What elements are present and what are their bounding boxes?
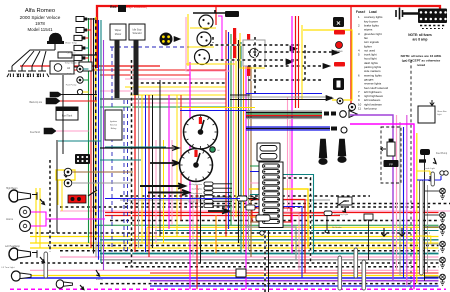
wire pink 1: [60, 256, 439, 258]
dashed box: aftermarket fuel pump: [381, 127, 401, 183]
svg-text:left highbeam: left highbeam: [189, 183, 202, 186]
lamp: right tail light: [440, 188, 446, 199]
svg-text:Relay: Relay: [111, 128, 117, 130]
wire black v x160: [159, 80, 161, 237]
svg-text:High Beam: High Beam: [6, 188, 17, 190]
wire bundle #111111: [238, 40, 240, 243]
svg-text:fuel pump: fuel pump: [364, 107, 377, 111]
switch: brake light switch: [256, 215, 270, 221]
svg-text:LF Turn Light: LF Turn Light: [2, 266, 15, 269]
capsule connector bottom 1: [338, 256, 342, 290]
svg-text:Trunk Light: Trunk Light: [424, 167, 435, 170]
connector arrow2: [286, 59, 293, 65]
wire loop red: [249, 200, 305, 274]
svg-text:dash lights: dash lights: [192, 187, 203, 190]
lamp small: [337, 98, 343, 104]
box: idle solenoid: [129, 24, 145, 40]
wire black v x200: [200, 195, 202, 263]
wire dash 2: [60, 250, 439, 252]
connector: high beam ind: [204, 200, 213, 204]
wire vert #1515e8 x98.5: [98, 20, 100, 260]
svg-text:(ga) EXCEPT as otherwise: (ga) EXCEPT as otherwise: [402, 59, 441, 63]
connector: rear harness joint: [364, 214, 373, 220]
wire loop teal: [283, 175, 314, 254]
sender: Water Temp: [74, 35, 82, 40]
wire yellow 1: [30, 242, 439, 244]
motor: blower: [195, 50, 210, 65]
wire black u1: [100, 98, 226, 100]
fuse 8: [263, 203, 280, 207]
switch courtesy: [337, 201, 349, 206]
connector: heater: [246, 205, 255, 210]
wire teal stub left: [100, 159, 141, 161]
lamp: license lights: [440, 171, 444, 175]
fuse 9: [263, 208, 280, 212]
svg-text:noted: noted: [417, 63, 426, 67]
wire red v x197: [196, 185, 198, 289]
wire red inner rect: [252, 208, 291, 222]
wire dash tv0: [212, 37, 214, 43]
component: fuel pump (trunk): [420, 149, 430, 155]
fuse 5: [263, 186, 280, 190]
wire bundle #0e8080: [240, 42, 242, 254]
wire yellow u1: [125, 86, 226, 88]
label: alt: [334, 62, 345, 67]
ignition coil: [58, 52, 72, 58]
switch: handbrake: [88, 190, 97, 196]
wire dash u1: [130, 82, 226, 84]
fuse 7: [263, 197, 280, 201]
wire green u1: [100, 106, 226, 108]
wire bundle #996633: [250, 50, 252, 257]
wire red c1: [105, 212, 439, 214]
switch: ignition: [340, 111, 347, 118]
wire pink u3: [130, 102, 226, 104]
wire yellow lv2: [39, 188, 41, 248]
wire vert #9a9a9a x96: [95, 20, 97, 257]
wire loop yellow: [249, 189, 308, 248]
horn 2: [20, 221, 31, 232]
switch: glovebox: [260, 231, 264, 235]
distributor: [49, 33, 62, 41]
wire red v x295: [295, 16, 297, 108]
connector: round 4-pin: [160, 33, 173, 46]
svg-text:Service: Service: [110, 124, 118, 127]
sender: Fuel Pump: [77, 77, 83, 83]
svg-text:Fuel Sndr: Fuel Sndr: [30, 131, 40, 134]
lamp: side marker: [56, 280, 64, 288]
wire yellow loop right: [303, 30, 352, 100]
motor: wiper: [199, 15, 213, 29]
wire black vertical x63: [62, 75, 64, 154]
sender: plug small: [77, 89, 82, 94]
wire dash tv2: [304, 45, 306, 80]
svg-text:Alfa Romeo: Alfa Romeo: [25, 8, 55, 14]
svg-text:×: ×: [336, 18, 341, 27]
ground: [428, 176, 431, 181]
svg-text:Horns: Horns: [6, 217, 14, 221]
wire bundle #9a9a9a: [248, 48, 250, 251]
box: seat belt buzzer: [338, 197, 352, 205]
svg-text:1978: 1978: [35, 21, 45, 26]
wire black v x152: [152, 95, 154, 248]
wire brown: [72, 171, 133, 173]
wire blue 2: [150, 285, 439, 287]
wire dash t5: [248, 79, 322, 81]
dashed boundary: dash area: [110, 46, 212, 48]
wire dash 3: [20, 262, 439, 264]
fuse 1: [263, 164, 280, 168]
wire blue 198: [105, 198, 240, 200]
wire vert #111111 x93.5: [93, 18, 95, 254]
wire coil to bundle: [72, 54, 97, 56]
fuse 10: [263, 214, 280, 218]
wire: red main feed: [97, 6, 440, 68]
wire dash c2: [60, 206, 430, 208]
sender: oil temp top: [76, 17, 84, 22]
fuse block: [259, 162, 283, 228]
lamp: left headlamp: [9, 248, 19, 260]
wire green c1: [95, 224, 439, 226]
wire bundle #159040: [230, 34, 232, 225]
svg-text:FP: FP: [389, 162, 393, 166]
wire yellow v x163: [163, 140, 165, 243]
wire yellow loop center-left: [146, 227, 148, 246]
wire red v x181: [180, 95, 182, 221]
alternator symbol in legend: [349, 104, 356, 111]
svg-text:Left Headlamp: Left Headlamp: [5, 245, 21, 248]
wire loop gray: [245, 227, 296, 260]
sensor: brake fluid 2: [64, 179, 72, 187]
wire red v x298: [298, 16, 300, 108]
box: glovebox light: [418, 106, 435, 123]
wire pink v x172: [171, 140, 173, 225]
wire yellow jog right: [417, 236, 431, 244]
wire loop black dash: [283, 178, 311, 263]
lamp: right side marker: [440, 274, 446, 285]
svg-text:Load: Load: [369, 10, 377, 14]
gauge: tachometer: [184, 115, 218, 149]
wire: red risers: [233, 28, 236, 58]
component: flasher: [236, 269, 246, 277]
sender: Oil Level: [74, 45, 82, 50]
sender: top2: [76, 28, 84, 33]
wire teal 1: [100, 253, 439, 255]
capsule connector bottom 1b: [354, 248, 358, 278]
wire yellow loop blower: [240, 33, 265, 68]
svg-text:Brakes: Brakes: [335, 50, 343, 53]
wire magenta motor: [218, 16, 222, 60]
horn 1: [20, 207, 31, 218]
starter: [79, 62, 92, 71]
motor: heater fan: [197, 32, 211, 46]
wire yellow lv1: [35, 188, 37, 243]
indicator: clock: [333, 17, 344, 27]
fuse 4: [263, 181, 280, 185]
svg-text:battery: battery: [96, 278, 104, 281]
wire blue right: [403, 127, 405, 278]
svg-text:Ignition: Ignition: [110, 120, 118, 123]
svg-text:right highbeam: right highbeam: [188, 192, 203, 195]
wire gray c1: [120, 199, 330, 201]
ground: [96, 270, 100, 276]
svg-text:fuel gauge: fuel gauge: [192, 206, 203, 208]
lamp: license light: [440, 257, 446, 268]
svg-text:No Smoke: No Smoke: [332, 227, 343, 229]
wire blue row 93: [246, 93, 322, 95]
svg-text:are 8 amp: are 8 amp: [413, 38, 428, 42]
wire magenta dashed bottom: [10, 288, 446, 290]
fuse 11: [263, 220, 280, 224]
wire pink u1: [125, 78, 226, 80]
cable: black 1: [115, 40, 120, 98]
wire yellow v x302: [301, 25, 303, 100]
wire gray right x427: [427, 185, 429, 273]
capsule connector bottom 2: [362, 260, 366, 290]
wire yellow v x177: [176, 95, 178, 237]
svg-text:Courtesy Light: Courtesy Light: [334, 213, 348, 216]
connector capsule right: [420, 180, 424, 275]
wire teal 147: [105, 146, 166, 148]
svg-text:2000 Spider Veloce: 2000 Spider Veloce: [20, 15, 61, 20]
wire blue 1: [20, 277, 439, 279]
wire blue dashed v3: [127, 100, 129, 252]
wire yellow v x142: [141, 95, 143, 243]
svg-text:Oil Press: Oil Press: [67, 73, 77, 76]
band: lighting harness: [246, 126, 330, 128]
wire dash vertical below fuses: [264, 230, 266, 292]
svg-text:Back-Up Lts: Back-Up Lts: [29, 101, 42, 104]
svg-text:11: 11: [358, 107, 361, 111]
wire red c2: [105, 215, 340, 217]
wire bundle #ff00ff: [245, 46, 247, 289]
sensor: temp: [325, 222, 329, 233]
wire vert #0e8080 x101: [100, 20, 102, 263]
ground: [433, 158, 436, 164]
wire pink 2: [30, 269, 439, 271]
indicator: fuel gauge: [333, 78, 344, 90]
wire gray v x138: [138, 95, 140, 248]
wire dash v1: [131, 60, 133, 267]
fuel tank: [56, 107, 78, 120]
lamp: LF turn/parking: [11, 271, 20, 281]
lamp: high beam: [9, 190, 19, 202]
spark plug 4: [37, 66, 49, 77]
wire purple 1: [150, 280, 439, 282]
wire dash t2: [210, 59, 298, 61]
wire yellow motor loops: [188, 14, 216, 66]
wire black arrow x100: [100, 146, 179, 151]
wire yellow right x417: [416, 133, 418, 284]
connector: fuel gauge: [204, 204, 213, 208]
wire bundle #1515e8: [228, 32, 230, 229]
fuse 3: [263, 175, 280, 179]
wire blue dashed v2: [123, 100, 125, 252]
lamp: right turn signal: [440, 241, 446, 252]
wire pink c1: [60, 210, 240, 212]
wire teal stub left mid: [58, 140, 101, 142]
wire gray brake: [72, 182, 132, 184]
capsule connector left-mid: [44, 252, 48, 278]
wire dash c4: [30, 232, 430, 234]
wire purple right: [350, 115, 393, 281]
wire yellow trunk loop: [417, 171, 430, 175]
connector: turn indicator: [204, 195, 213, 199]
wire gray right: [399, 122, 401, 276]
wire teal c2: [155, 230, 439, 232]
fuse 6: [263, 192, 280, 196]
connector: hazard flasher: [237, 196, 247, 201]
lamp: right brake light: [440, 212, 446, 223]
spark plug wires: [12, 50, 55, 66]
wire yellow motor row: [186, 63, 235, 65]
wire red v x135: [134, 70, 136, 252]
box: blower unit: [243, 40, 265, 66]
wire orange vertical x216: [215, 215, 217, 254]
wire yellow 2: [30, 247, 439, 249]
switch: turn signal stalk: [338, 139, 346, 156]
connector: left highbeam: [204, 182, 213, 186]
svg-text:Model 11541: Model 11541: [27, 27, 53, 32]
wire magenta v x169: [168, 95, 170, 229]
connector arrow: [290, 46, 297, 52]
svg-text:Idle Stop: Idle Stop: [132, 28, 142, 31]
wire dash c0: [120, 195, 370, 197]
switch: dimmer stalk: [319, 139, 327, 158]
sender: Temp Sender: [74, 55, 82, 60]
switch: door switches: [382, 228, 387, 236]
svg-text:Oil Level: Oil Level: [67, 53, 76, 55]
brake fluid reservoir: [68, 195, 86, 203]
wire black v below fuses: [268, 230, 270, 292]
svg-text:Water Temp: Water Temp: [65, 42, 77, 45]
svg-text:Fuel Pump: Fuel Pump: [66, 85, 77, 87]
svg-text:high beam ind: high beam ind: [188, 202, 203, 204]
wire blue above gauges: [180, 110, 250, 112]
svg-text:Door: Door: [382, 238, 387, 241]
fuse 2: [263, 170, 280, 174]
wire dash lv: [49, 160, 51, 252]
svg-text:Alt: Alt: [67, 66, 70, 70]
label: brakes: [334, 30, 345, 35]
wire gray 1: [100, 259, 439, 261]
wire dash t3: [248, 51, 332, 53]
wire vert #a040d8 x103.5: [103, 40, 105, 270]
connector: trunk light: [419, 159, 426, 162]
wire bundle #ff9000: [243, 44, 245, 248]
wire yellow c2: [147, 226, 439, 228]
svg-text:Glove Box: Glove Box: [437, 111, 448, 113]
cable arrow 0: [150, 160, 179, 165]
connector: barrel 2: [331, 127, 337, 131]
sensor: brake fluid 1: [64, 168, 72, 176]
wire yellow above gauges: [180, 107, 255, 109]
relay: fuse feed: [257, 143, 280, 161]
wire bundle #ffdf00: [235, 38, 237, 218]
wire yellow 3: [30, 275, 439, 277]
wire bundle #ff9dc8: [233, 58, 235, 221]
wire orchid right: [406, 115, 408, 286]
wire pink right: [396, 115, 398, 270]
wire magenta main vertical: [189, 62, 191, 289]
wire pink v x156: [155, 140, 157, 243]
wire vert #159040 x88.5: [88, 18, 90, 243]
wire pink c2: [324, 210, 450, 212]
svg-text:Red: Red: [110, 5, 116, 9]
connector: black top: [118, 5, 126, 12]
svg-text:Light: Light: [437, 113, 442, 116]
wire black lv: [56, 140, 58, 233]
wire red drop to legend: [350, 6, 352, 112]
wire pink v x290: [289, 120, 291, 211]
svg-text:Solenoid: Solenoid: [133, 33, 143, 35]
wire dash c1: [125, 203, 450, 205]
spark plug 2: [17, 66, 29, 77]
connector: dash lights: [204, 186, 213, 190]
spark plug 1: [7, 66, 19, 77]
lamp: courtesy light: [324, 211, 332, 216]
cable: black 2: [134, 40, 139, 95]
gauge: speedometer: [180, 149, 213, 182]
svg-text:Wiper: Wiper: [115, 29, 122, 32]
connector: right highbeam: [204, 191, 213, 195]
wire yellow pair drop: [57, 180, 59, 205]
svg-text:Temp Sender: Temp Sender: [64, 62, 77, 65]
wire black right x424: [424, 150, 426, 281]
box: intermittent wiper (yellow loop): [56, 170, 75, 180]
connector: barrel 1: [324, 112, 336, 116]
lamp: brake warning: [336, 42, 343, 49]
fusebox pictorial: [403, 12, 429, 14]
wire vert #ee1111 x91: [90, 18, 92, 248]
wire horn magenta: [31, 212, 47, 226]
wire red u1: [20, 65, 160, 67]
lamp: reverse light: [440, 224, 446, 235]
wire pink v x287: [287, 97, 289, 211]
wire blue license loop: [421, 176, 441, 180]
band: ignition harness: [246, 110, 322, 112]
indicator: oil pressure lamp: [210, 147, 216, 153]
wire blue dashed v1: [111, 47, 113, 252]
wire yellow u2: [130, 94, 226, 96]
wire dash 5: [100, 283, 439, 285]
ground: [40, 257, 45, 262]
svg-text:Fuel Tank: Fuel Tank: [62, 115, 73, 118]
svg-text:Door: Door: [400, 238, 405, 241]
wire loop blue: [249, 207, 302, 279]
svg-text:Fuel Pump: Fuel Pump: [436, 153, 448, 155]
ground: [342, 206, 345, 212]
wire dash tv1: [254, 37, 256, 95]
wire red v x149: [148, 95, 150, 257]
svg-text:Motor: Motor: [115, 33, 122, 36]
wire red drop wiper: [215, 6, 217, 25]
wire dash 4: [125, 266, 439, 268]
wire dash c3: [110, 220, 439, 222]
wire loop pink: [283, 212, 299, 270]
wire pink u2: [100, 90, 226, 92]
capsule connector right2: [431, 172, 434, 186]
cable arrow 3: [208, 208, 229, 213]
dashed boundary: trunk line: [410, 60, 412, 290]
wire dash 1: [48, 245, 439, 247]
spark plug 3: [27, 66, 39, 77]
wire bundle #ee1111: [225, 30, 227, 237]
connector: backup lights: [46, 98, 60, 104]
wire dash t1: [210, 44, 302, 46]
connector: comb block: [75, 154, 90, 164]
wire gray antenna pair: [230, 96, 332, 98]
